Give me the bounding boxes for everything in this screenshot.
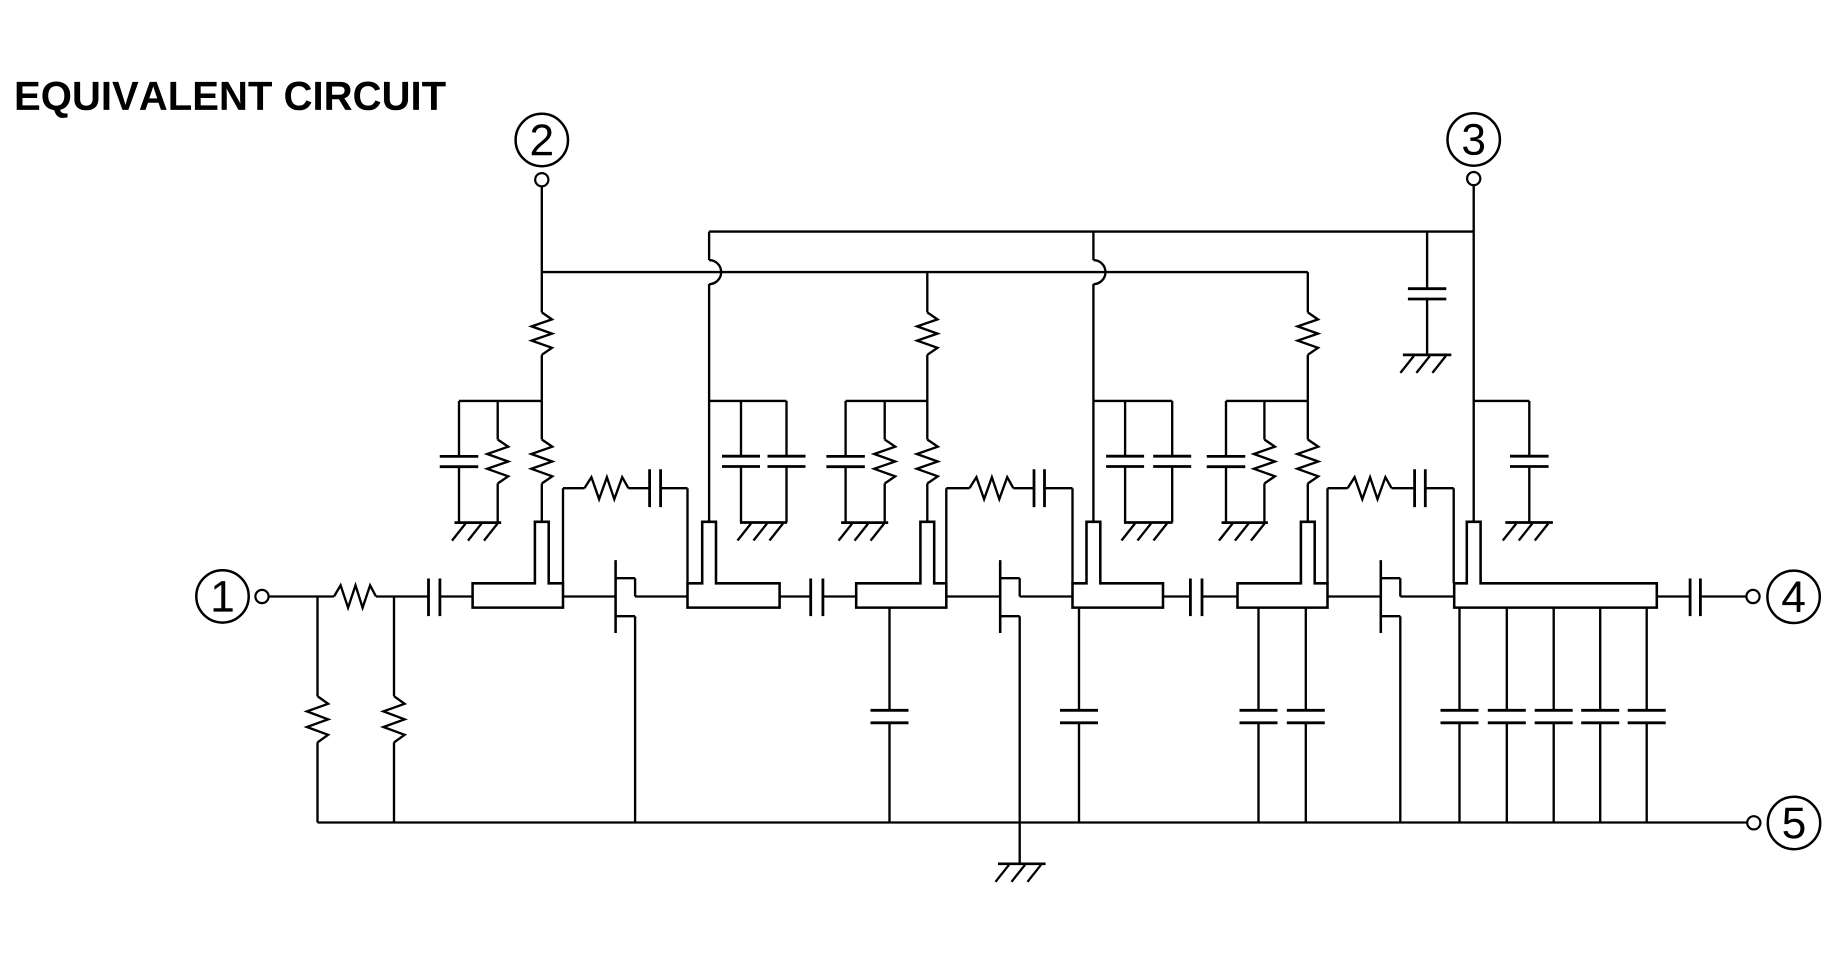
wire TL6 to C25: [1657, 595, 1690, 597]
wire stage2 bias junction left: [846, 400, 928, 402]
capacitor C4 (stage1 drain shunt): [740, 401, 742, 457]
capacitor C7 (stage2 gate shunt): [844, 401, 846, 457]
transmission line TL2: [688, 522, 780, 608]
capacitor C9 (stage2 feedback): [1033, 469, 1036, 507]
ground G7: [1505, 521, 1553, 524]
wire R4 to junction: [541, 355, 543, 401]
capacitor C21 (output line shunt): [1506, 608, 1508, 711]
ground G2: [740, 521, 787, 524]
capacitor C16 (TL5 line shunt): [1305, 608, 1307, 711]
wire TL1 to Q1 gate: [563, 595, 616, 597]
wire pin3 down: [1473, 185, 1475, 522]
capacitor C1 (input series): [427, 579, 430, 617]
ground G6: [1403, 354, 1451, 357]
wire Q2 drain to TL4: [1020, 595, 1073, 597]
wire stage2 drain bias with hop: [1092, 232, 1094, 260]
transistor Q3: [1380, 560, 1383, 633]
resistor R8 (stage2 gate bias upper): [917, 312, 937, 354]
wire feedback2 left: [945, 488, 947, 583]
capacitor C10 (stage2 drain shunt): [1124, 401, 1126, 457]
transmission line TL1: [473, 522, 563, 608]
capacitor C22 (output line shunt): [1553, 608, 1555, 711]
capacitor C12 (TL4 line shunt): [1078, 608, 1080, 711]
ground G5: [1222, 521, 1268, 524]
wire C1 to TL1: [440, 595, 473, 597]
capacitor C23 (output line shunt): [1599, 608, 1601, 711]
wire R11 to C9: [1013, 487, 1034, 489]
ground G1: [455, 521, 502, 524]
wire junction to R10: [926, 401, 928, 440]
capacitor C3 (stage1 feedback): [648, 469, 651, 507]
capacitor C15 (TL5 line shunt): [1257, 608, 1259, 711]
resistor R14 (stage3 gate bias lower): [1297, 440, 1318, 484]
wire pin3 junction right: [1474, 400, 1530, 402]
resistor R12 (stage3 gate bias upper): [1298, 312, 1318, 354]
transmission line TL3: [856, 522, 946, 608]
capacitor C20 (output line shunt): [1458, 608, 1460, 711]
terminal pin 4 (output): [1767, 571, 1819, 623]
wire Q1 drain to TL2: [635, 595, 687, 597]
resistor R7 (stage1 feedback): [584, 477, 628, 499]
ground G3: [841, 521, 888, 524]
resistor R11 (stage2 feedback): [969, 477, 1013, 499]
transistor Q2: [999, 560, 1002, 633]
resistor R13 (stage3 gate shunt): [1263, 401, 1265, 440]
wire pin1 to node A: [269, 595, 334, 597]
wire feedback1 right: [661, 487, 688, 489]
resistor R6 (stage1 gate bias lower): [531, 440, 552, 484]
capacitor C13 (interstage 2-3): [1189, 579, 1192, 617]
wire R10 to TL3 stub: [926, 484, 928, 522]
wire TL4 to C13: [1163, 595, 1190, 597]
wire stage2 drain junction right: [1093, 400, 1172, 402]
wire stage3 bias down: [1307, 272, 1309, 312]
resistor R2 (input shunt): [316, 597, 318, 697]
wire feedback2 right: [1045, 487, 1073, 489]
terminal pin 5 (ground): [1768, 797, 1820, 849]
ground G4: [1124, 521, 1173, 524]
wire R8 to junction: [926, 355, 928, 401]
resistor R4 (stage1 gate bias upper): [532, 312, 552, 354]
resistor R15 (stage3 feedback): [1348, 477, 1392, 499]
wire R12 to junction: [1307, 355, 1309, 401]
capacitor C6 (interstage 1-2): [809, 579, 812, 617]
wire R7 to C3: [628, 487, 649, 489]
capacitor C5 (stage1 drain shunt): [785, 401, 787, 457]
capacitor C24 (output line shunt): [1646, 608, 1648, 711]
wire R14 to TL5 stub: [1307, 484, 1309, 522]
wire Q3 drain to TL6: [1400, 595, 1454, 597]
terminal pin 3 (Vdd): [1448, 113, 1500, 165]
resistor R1 (series input): [334, 585, 376, 607]
capacitor C18 (rail1 bypass): [1426, 232, 1428, 289]
wire feedback3 left: [1326, 488, 1328, 583]
wire junction to R6: [541, 401, 543, 440]
wire junction to R14: [1307, 401, 1309, 440]
capacitor C19 (pin3 shunt): [1528, 401, 1530, 457]
ground G8 (Q2 source): [998, 862, 1046, 865]
wire rail1 (pin3 supply): [709, 230, 1474, 232]
wire feedback1 left: [562, 488, 564, 583]
transistor Q1: [614, 560, 617, 633]
resistor R9 (stage2 gate shunt): [884, 401, 886, 440]
transmission line TL6: [1454, 522, 1657, 608]
wire feedback3 right: [1425, 487, 1453, 489]
transmission line TL4: [1073, 522, 1164, 608]
wire TL3 to Q2 gate: [946, 595, 1000, 597]
resistor R3 (input shunt): [393, 597, 395, 697]
wire TL5 to Q3 gate: [1328, 595, 1381, 597]
wire stage1 drain bias with hop: [708, 232, 710, 260]
title text: [17, 81, 446, 117]
capacitor C25 (output series): [1689, 579, 1692, 617]
wire pin2 down: [541, 186, 543, 312]
wire R15 to C17: [1392, 487, 1415, 489]
wire stage1 drain junction right: [709, 400, 786, 402]
wire stage2 bias down: [926, 272, 928, 312]
wire rail2 (pin2 supply): [542, 271, 1308, 273]
capacitor C14 (stage3 gate shunt): [1225, 401, 1227, 457]
capacitor C2 (stage1 gate shunt): [458, 401, 460, 457]
transmission line TL5: [1238, 522, 1328, 608]
wire R6 to TL1 stub: [541, 484, 543, 522]
capacitor C8 (TL3 line shunt): [888, 608, 890, 711]
wire R1 to C1: [376, 595, 429, 597]
wire C25 to pin4: [1700, 595, 1746, 597]
capacitor C17 (stage3 feedback): [1413, 469, 1416, 507]
capacitor C11 (stage2 drain shunt): [1171, 401, 1173, 457]
wire bottom rail to pin5: [318, 821, 1747, 823]
wire C6 to TL3: [823, 595, 856, 597]
wire TL2 to C6: [780, 595, 811, 597]
terminal pin 1 (input): [196, 570, 248, 622]
wire stage3 bias junction left: [1226, 400, 1308, 402]
terminal pin 2 (Vdd bias): [516, 114, 568, 166]
wire stage1 bias junction left: [459, 400, 542, 402]
resistor R5 (stage1 gate shunt): [497, 401, 499, 440]
resistor R10 (stage2 gate bias lower): [917, 440, 938, 484]
wire C13 to TL5: [1202, 595, 1238, 597]
